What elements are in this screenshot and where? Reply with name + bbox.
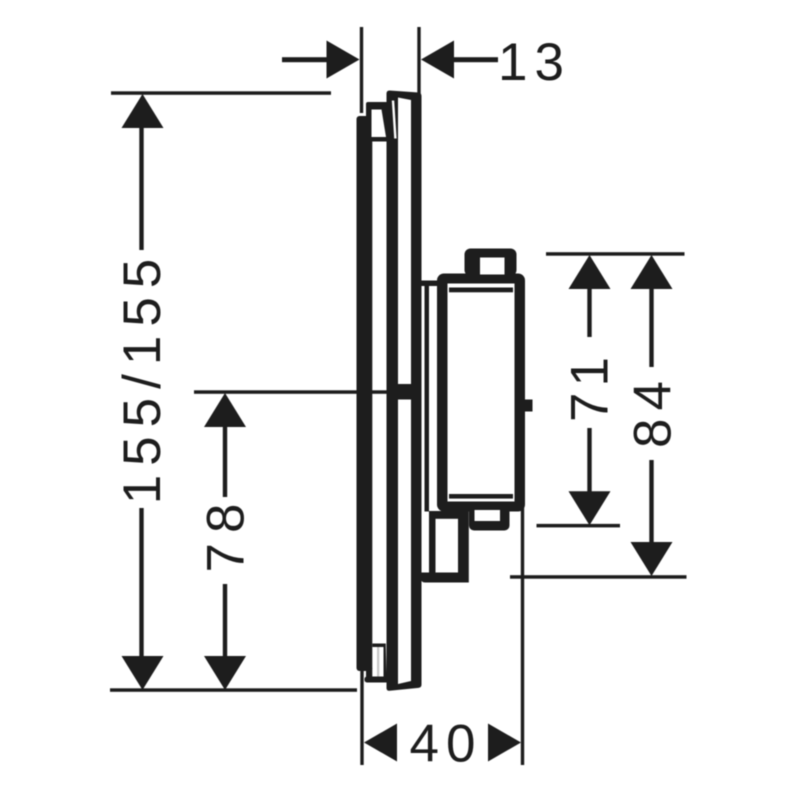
marker tick on handle face: [525, 400, 533, 412]
dimension 78: lower shaft: [223, 584, 227, 657]
dimension 71: lower shaft: [587, 428, 591, 492]
dimension 71: down arrow: [569, 491, 611, 525]
handle body (outlined): [437, 274, 525, 512]
sleeve top section: [366, 102, 389, 142]
dimension 78: down arrow: [204, 656, 246, 690]
dimension 155/155: bottom extension line: [110, 688, 357, 692]
dimension 40: left-pointing arrow: [364, 724, 397, 762]
dimension 71: up arrow: [569, 255, 611, 289]
dimension 13: right lead line: [454, 57, 498, 62]
mid divider marker on plate: [387, 384, 416, 400]
dimension 13: left-pointing arrow: [421, 41, 454, 79]
select button on handle top: [465, 249, 517, 277]
dimension 84: upper shaft: [649, 288, 653, 367]
dimension 155/155: lower shaft: [139, 508, 143, 657]
dimension 40: right-pointing arrow: [488, 724, 521, 762]
dimension 78: up arrow: [204, 393, 246, 427]
dimension 13: right-pointing arrow: [327, 41, 360, 79]
svg-text:71: 71: [561, 351, 620, 422]
dimension 13: right extension line: [417, 27, 420, 96]
select button on handle bottom: [469, 506, 510, 531]
dimension 155/155: down arrow: [122, 656, 164, 690]
dimension 71: bottom extension line: [537, 524, 621, 528]
wall flange (back plate, solid side view): [357, 116, 373, 671]
dimension 71: upper shaft: [587, 288, 591, 337]
dimension 40: left extension line: [360, 671, 363, 765]
svg-text:155/155: 155/155: [113, 250, 172, 505]
sleeve bottom section: [365, 644, 396, 683]
dimension 71/84: top extension line: [546, 252, 685, 256]
dimension 84: lower shaft: [649, 460, 653, 543]
svg-text:84: 84: [624, 373, 683, 448]
dimension 155/155: up arrow: [122, 94, 164, 128]
dimension 13: left lead line: [282, 57, 327, 62]
dimension 84: up arrow: [631, 255, 673, 289]
dimension 155/155: top extension line: [111, 91, 331, 95]
dimension 84: bottom extension line: [510, 575, 687, 579]
svg-text:40: 40: [410, 715, 483, 774]
escutcheon front plate (outlined, tall): [387, 91, 422, 691]
dimension 155/155: upper shaft: [139, 127, 143, 250]
dimension 78: middle extension line: [194, 390, 389, 394]
svg-text:78: 78: [197, 494, 256, 573]
svg-text:13: 13: [498, 33, 571, 92]
dimension 40: right extension line: [521, 506, 524, 765]
dimension 84: down arrow: [631, 542, 673, 576]
dimension 13: left extension line: [360, 27, 363, 113]
sleeve between plate and handle: [421, 281, 442, 512]
lower valve body box: [421, 511, 469, 583]
dimension 78: upper shaft: [223, 426, 227, 497]
